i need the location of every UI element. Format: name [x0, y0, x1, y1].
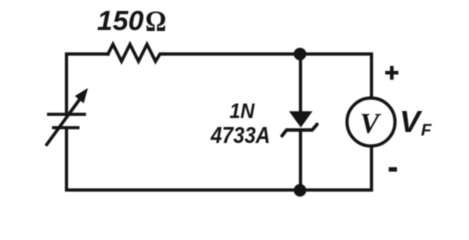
zener right bend: [313, 124, 318, 129]
wire top-middle segment: [164, 52, 301, 55]
svg-text:150: 150: [97, 5, 144, 36]
junction bottom: [294, 184, 307, 197]
svg-text:V: V: [360, 108, 382, 140]
svg-text:1N: 1N: [230, 100, 256, 123]
wire top-left segment: [67, 54, 109, 113]
zener left bend: [282, 130, 287, 136]
source plate short: [52, 126, 80, 129]
junction top: [294, 48, 307, 61]
svg-text:Ω: Ω: [145, 5, 166, 38]
source arrowhead: [75, 88, 88, 103]
wire zener bottom lead: [299, 130, 302, 190]
wire zener top lead: [299, 54, 302, 112]
resistor R1: [108, 44, 164, 61]
voltmeter M1 circle: [347, 98, 395, 146]
label minus: [389, 167, 397, 171]
source adjustment arrow: [46, 98, 81, 146]
zener diode D1: [282, 111, 317, 136]
svg-text:4733A: 4733A: [210, 122, 270, 148]
wire top-right segment: [301, 54, 372, 97]
svg-text:V: V: [400, 104, 423, 139]
zener triangle: [289, 111, 313, 127]
wire left-bottom segment: [67, 128, 301, 190]
svg-text:F: F: [421, 120, 432, 139]
zener cathode bar: [286, 128, 313, 131]
wire bottom-right segment: [301, 148, 372, 191]
label plus: [385, 66, 398, 80]
source plate long: [47, 113, 86, 116]
variable source VS1: [46, 98, 86, 146]
